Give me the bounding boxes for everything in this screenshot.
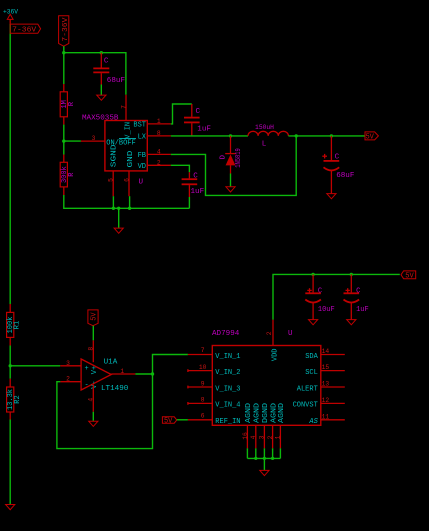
wire horizontal 7-36V feed to MAX input — [64, 53, 126, 95]
diode D 1N5819 — [220, 136, 244, 174]
capacitor C 1uF VD bypass — [182, 172, 205, 197]
resistor R 300k — [60, 155, 76, 196]
global label 5V right — [401, 271, 416, 281]
capacitor C 68uF input — [93, 53, 125, 85]
svg-text:AGND: AGND — [270, 403, 278, 423]
wire R1 to R2 node — [9, 346, 11, 379]
svg-text:U1A: U1A — [104, 359, 118, 367]
wire from vertical label down to 1M resistor — [63, 46, 65, 84]
svg-text:14: 14 — [322, 348, 330, 355]
svg-text:LX: LX — [138, 134, 147, 142]
svg-text:4: 4 — [250, 435, 257, 439]
wire ground rail under MAX — [64, 195, 190, 208]
junction 10uF tap — [311, 273, 314, 276]
ground under rail — [114, 228, 123, 233]
power symbol +36V — [3, 9, 18, 24]
svg-text:C: C — [193, 172, 198, 180]
ground under 68uF — [97, 95, 106, 100]
global label 5V at REF_IN — [162, 417, 176, 426]
svg-text:DGND: DGND — [262, 403, 270, 423]
svg-text:C: C — [104, 57, 109, 65]
capacitor C 68uF output electrolytic — [322, 136, 355, 194]
ground under 1uF — [347, 320, 356, 325]
svg-text:10: 10 — [199, 364, 207, 371]
wire V- to ground — [92, 412, 94, 421]
AD7994 pin 14 SDA — [305, 348, 345, 361]
svg-text:V_IN_2: V_IN_2 — [215, 369, 240, 377]
junction divider node — [9, 364, 12, 367]
svg-text:7-36V: 7-36V — [12, 27, 36, 35]
svg-text:U: U — [288, 330, 293, 338]
svg-text:D: D — [220, 155, 228, 159]
ground under 10uF — [309, 320, 318, 325]
wire opamp output — [135, 373, 152, 375]
AD7994 pin 10 V_IN_2 — [188, 364, 241, 377]
global label 5V at opamp V+ — [88, 310, 99, 326]
svg-text:V_IN_4: V_IN_4 — [215, 402, 240, 410]
svg-text:1: 1 — [275, 435, 282, 439]
wire BST to bootstrap cap — [171, 104, 192, 124]
svg-text:FB: FB — [138, 152, 146, 160]
AD7994 pin 4 AGND bottom — [250, 403, 261, 448]
junction rail ground stem — [117, 207, 120, 210]
op IC U MAX5035B body — [82, 114, 147, 186]
svg-text:68uF: 68uF — [336, 172, 355, 180]
resistor R1 100k — [7, 304, 22, 346]
junction GND — [128, 207, 131, 210]
MAX5035B pin 1 BST — [133, 118, 170, 130]
svg-text:VD: VD — [138, 163, 146, 171]
svg-text:V+: V+ — [91, 366, 99, 374]
ground under diode — [226, 187, 235, 192]
wire FB feedback loop — [171, 136, 296, 196]
global label 5V output — [365, 132, 378, 142]
wire rail to ground symbol — [118, 208, 120, 228]
AD7994 pin 9 V_IN_3 — [188, 380, 241, 393]
ground under opamp — [89, 421, 98, 426]
svg-text:2: 2 — [66, 376, 70, 383]
svg-text:REF_IN: REF_IN — [215, 418, 240, 426]
svg-text:2: 2 — [266, 331, 273, 335]
svg-text:4: 4 — [157, 148, 161, 155]
svg-text:9: 9 — [201, 380, 205, 387]
svg-text:4: 4 — [87, 398, 94, 402]
svg-text:1: 1 — [157, 118, 161, 125]
ground bottom left — [6, 505, 15, 510]
wire feedback to - input — [57, 374, 153, 449]
wire AGND bus — [247, 448, 280, 458]
svg-text:L: L — [262, 140, 267, 148]
svg-text:C: C — [335, 153, 340, 161]
svg-text:1uF: 1uF — [191, 188, 205, 196]
junction at feedback branch — [295, 134, 298, 137]
MAX5035B pin 3 ON/BOFF — [81, 135, 136, 147]
svg-text:AGND: AGND — [254, 403, 262, 423]
svg-text:-: - — [84, 381, 88, 389]
IC U AD7994 body — [212, 330, 321, 425]
svg-text:SCL: SCL — [305, 369, 318, 377]
svg-text:12: 12 — [322, 397, 330, 404]
resistor R2 13.3k — [7, 379, 23, 420]
junction 1uF tap — [350, 273, 353, 276]
junction at 68uF cap tap — [100, 51, 103, 54]
op-amp U1A LT1490 — [81, 359, 129, 394]
wire junction to ON/BOFF pin — [64, 140, 81, 142]
opamp pin 4 V- — [87, 385, 94, 412]
svg-text:8: 8 — [87, 347, 94, 351]
svg-text:AGND: AGND — [245, 403, 253, 423]
AD7994 pin 12 CONVST — [293, 397, 345, 410]
svg-text:8: 8 — [157, 130, 161, 137]
wire 1M to junction — [63, 125, 65, 155]
junction at 7-36V tee — [62, 51, 65, 54]
global label 7-36V vertical — [59, 16, 70, 47]
AD7994 pin 13 ALERT — [297, 381, 345, 394]
MAX5035B pin 2 VD — [138, 159, 171, 171]
wire VD to bypass cap — [171, 165, 190, 172]
wire SGND to rail — [112, 196, 114, 208]
inductor L 150uH — [248, 124, 288, 148]
wire 5V label to REF_IN — [177, 419, 188, 421]
capacitor C 10uF electrolytic — [305, 274, 334, 319]
opamp pin 3 + input — [60, 360, 81, 367]
svg-text:2: 2 — [267, 435, 274, 439]
wire bus to ground — [263, 458, 265, 470]
svg-text:3: 3 — [66, 360, 70, 367]
svg-text:7: 7 — [121, 105, 128, 109]
svg-text:7-36V: 7-36V — [62, 17, 70, 41]
AD7994 pin 7 V_IN_1 — [188, 347, 241, 361]
svg-text:15: 15 — [322, 364, 330, 371]
wire 68uF to ground — [100, 85, 102, 96]
global label 7-36V horizontal — [10, 24, 40, 34]
AD7994 pin 11 AS — [308, 413, 344, 426]
svg-text:MAX5035B: MAX5035B — [82, 114, 119, 122]
ground under AD7994 — [260, 470, 269, 475]
svg-text:V_IN_3: V_IN_3 — [215, 385, 240, 393]
wire LX line to diode and inductor — [171, 135, 248, 137]
wire node to opamp + input — [10, 365, 60, 367]
svg-text:AD7994: AD7994 — [212, 330, 240, 338]
svg-text:13: 13 — [322, 381, 330, 388]
svg-text:11: 11 — [322, 413, 330, 420]
MAX5035B pin 5 SGND bottom — [108, 144, 119, 196]
wire output up to ADC VIN1 — [153, 355, 188, 375]
svg-text:AGND: AGND — [278, 403, 286, 423]
svg-text:2: 2 — [157, 159, 161, 166]
capacitor C 1uF bootstrap — [184, 104, 211, 136]
AD7994 pin 2b AGND bottom — [267, 403, 278, 448]
opamp pin 2 - input — [60, 376, 81, 383]
opamp pin 8 V+ — [87, 340, 94, 362]
junction AGND bus — [254, 457, 257, 460]
junction divider to ON/BOFF — [62, 139, 65, 142]
svg-text:SGND: SGND — [111, 144, 119, 167]
AD7994 pin 8 V_IN_4 — [188, 397, 241, 410]
svg-text:LT1490: LT1490 — [101, 385, 129, 393]
svg-text:7: 7 — [201, 347, 205, 354]
svg-text:8: 8 — [201, 397, 205, 404]
wire diode to ground — [230, 174, 232, 187]
AD7994 pin 15 SCL — [305, 364, 345, 377]
junction output node — [151, 372, 154, 375]
svg-text:68uF: 68uF — [107, 77, 126, 85]
svg-text:150uH: 150uH — [255, 124, 274, 131]
svg-text:5V: 5V — [405, 273, 414, 281]
svg-text:1uF: 1uF — [356, 306, 369, 314]
svg-text:6: 6 — [201, 412, 205, 419]
junction SGND — [112, 207, 115, 210]
MAX5035B pin 7 IN top — [121, 95, 133, 139]
svg-text:V_IN: V_IN — [124, 122, 132, 139]
MAX5035B pin 6 GND bottom — [124, 151, 136, 197]
svg-text:1: 1 — [120, 368, 124, 375]
wire output line after inductor — [288, 135, 364, 137]
svg-text:U: U — [139, 179, 144, 187]
svg-text:5V: 5V — [164, 418, 173, 426]
svg-text:3: 3 — [259, 435, 266, 439]
wire 5V label to V+ — [92, 326, 94, 341]
svg-text:5: 5 — [108, 178, 115, 182]
svg-text:ALERT: ALERT — [297, 385, 318, 393]
svg-text:16: 16 — [242, 432, 249, 440]
svg-text:1N5819: 1N5819 — [235, 148, 243, 168]
opamp pin 1 output — [111, 368, 135, 375]
svg-text:5V: 5V — [365, 134, 374, 142]
capacitor C 1uF vdd bypass electrolytic — [344, 274, 369, 319]
AD7994 pin 1 AGND bottom — [275, 403, 286, 448]
svg-text:VDD: VDD — [272, 348, 280, 361]
svg-text:GND: GND — [127, 151, 135, 168]
svg-text:6: 6 — [124, 178, 131, 182]
junction at output cap — [330, 134, 333, 137]
wire VD cap to ground rail — [188, 197, 190, 208]
wire 5V rail to ADC VDD — [273, 274, 400, 319]
svg-text:R1: R1 — [14, 321, 22, 329]
svg-text:R2: R2 — [14, 395, 22, 403]
svg-text:V_IN_1: V_IN_1 — [215, 353, 240, 361]
AD7994 pin 6 REF_IN — [188, 412, 241, 426]
svg-text:1uF: 1uF — [197, 125, 211, 133]
AD7994 pin 3 DGND bottom — [259, 403, 270, 448]
junction at diode — [229, 134, 232, 137]
svg-text:C: C — [318, 288, 322, 296]
svg-text:5V: 5V — [91, 312, 99, 321]
svg-text:C: C — [196, 108, 201, 116]
svg-text:SDA: SDA — [305, 353, 318, 361]
svg-text:10uF: 10uF — [318, 306, 335, 314]
wire +36V vertical left rail — [9, 24, 11, 304]
svg-text:AS: AS — [308, 418, 318, 426]
wire R2 to ground — [9, 420, 11, 505]
MAX5035B pin 8 LX — [138, 130, 171, 142]
svg-text:3: 3 — [92, 135, 96, 142]
svg-text:V-: V- — [91, 380, 99, 388]
resistor R 1M — [60, 84, 76, 125]
svg-text:+: + — [84, 365, 88, 373]
MAX5035B pin 4 FB — [138, 148, 171, 160]
ground under output cap — [327, 194, 336, 199]
wire GND pin to rail — [129, 196, 131, 208]
AD7994 pin 16 AGND bottom — [242, 403, 253, 448]
AD7994 pin 2 VDD top — [266, 320, 280, 362]
svg-text:C: C — [356, 288, 360, 296]
svg-text:BST: BST — [133, 122, 146, 130]
svg-text:CONVST: CONVST — [293, 402, 318, 410]
